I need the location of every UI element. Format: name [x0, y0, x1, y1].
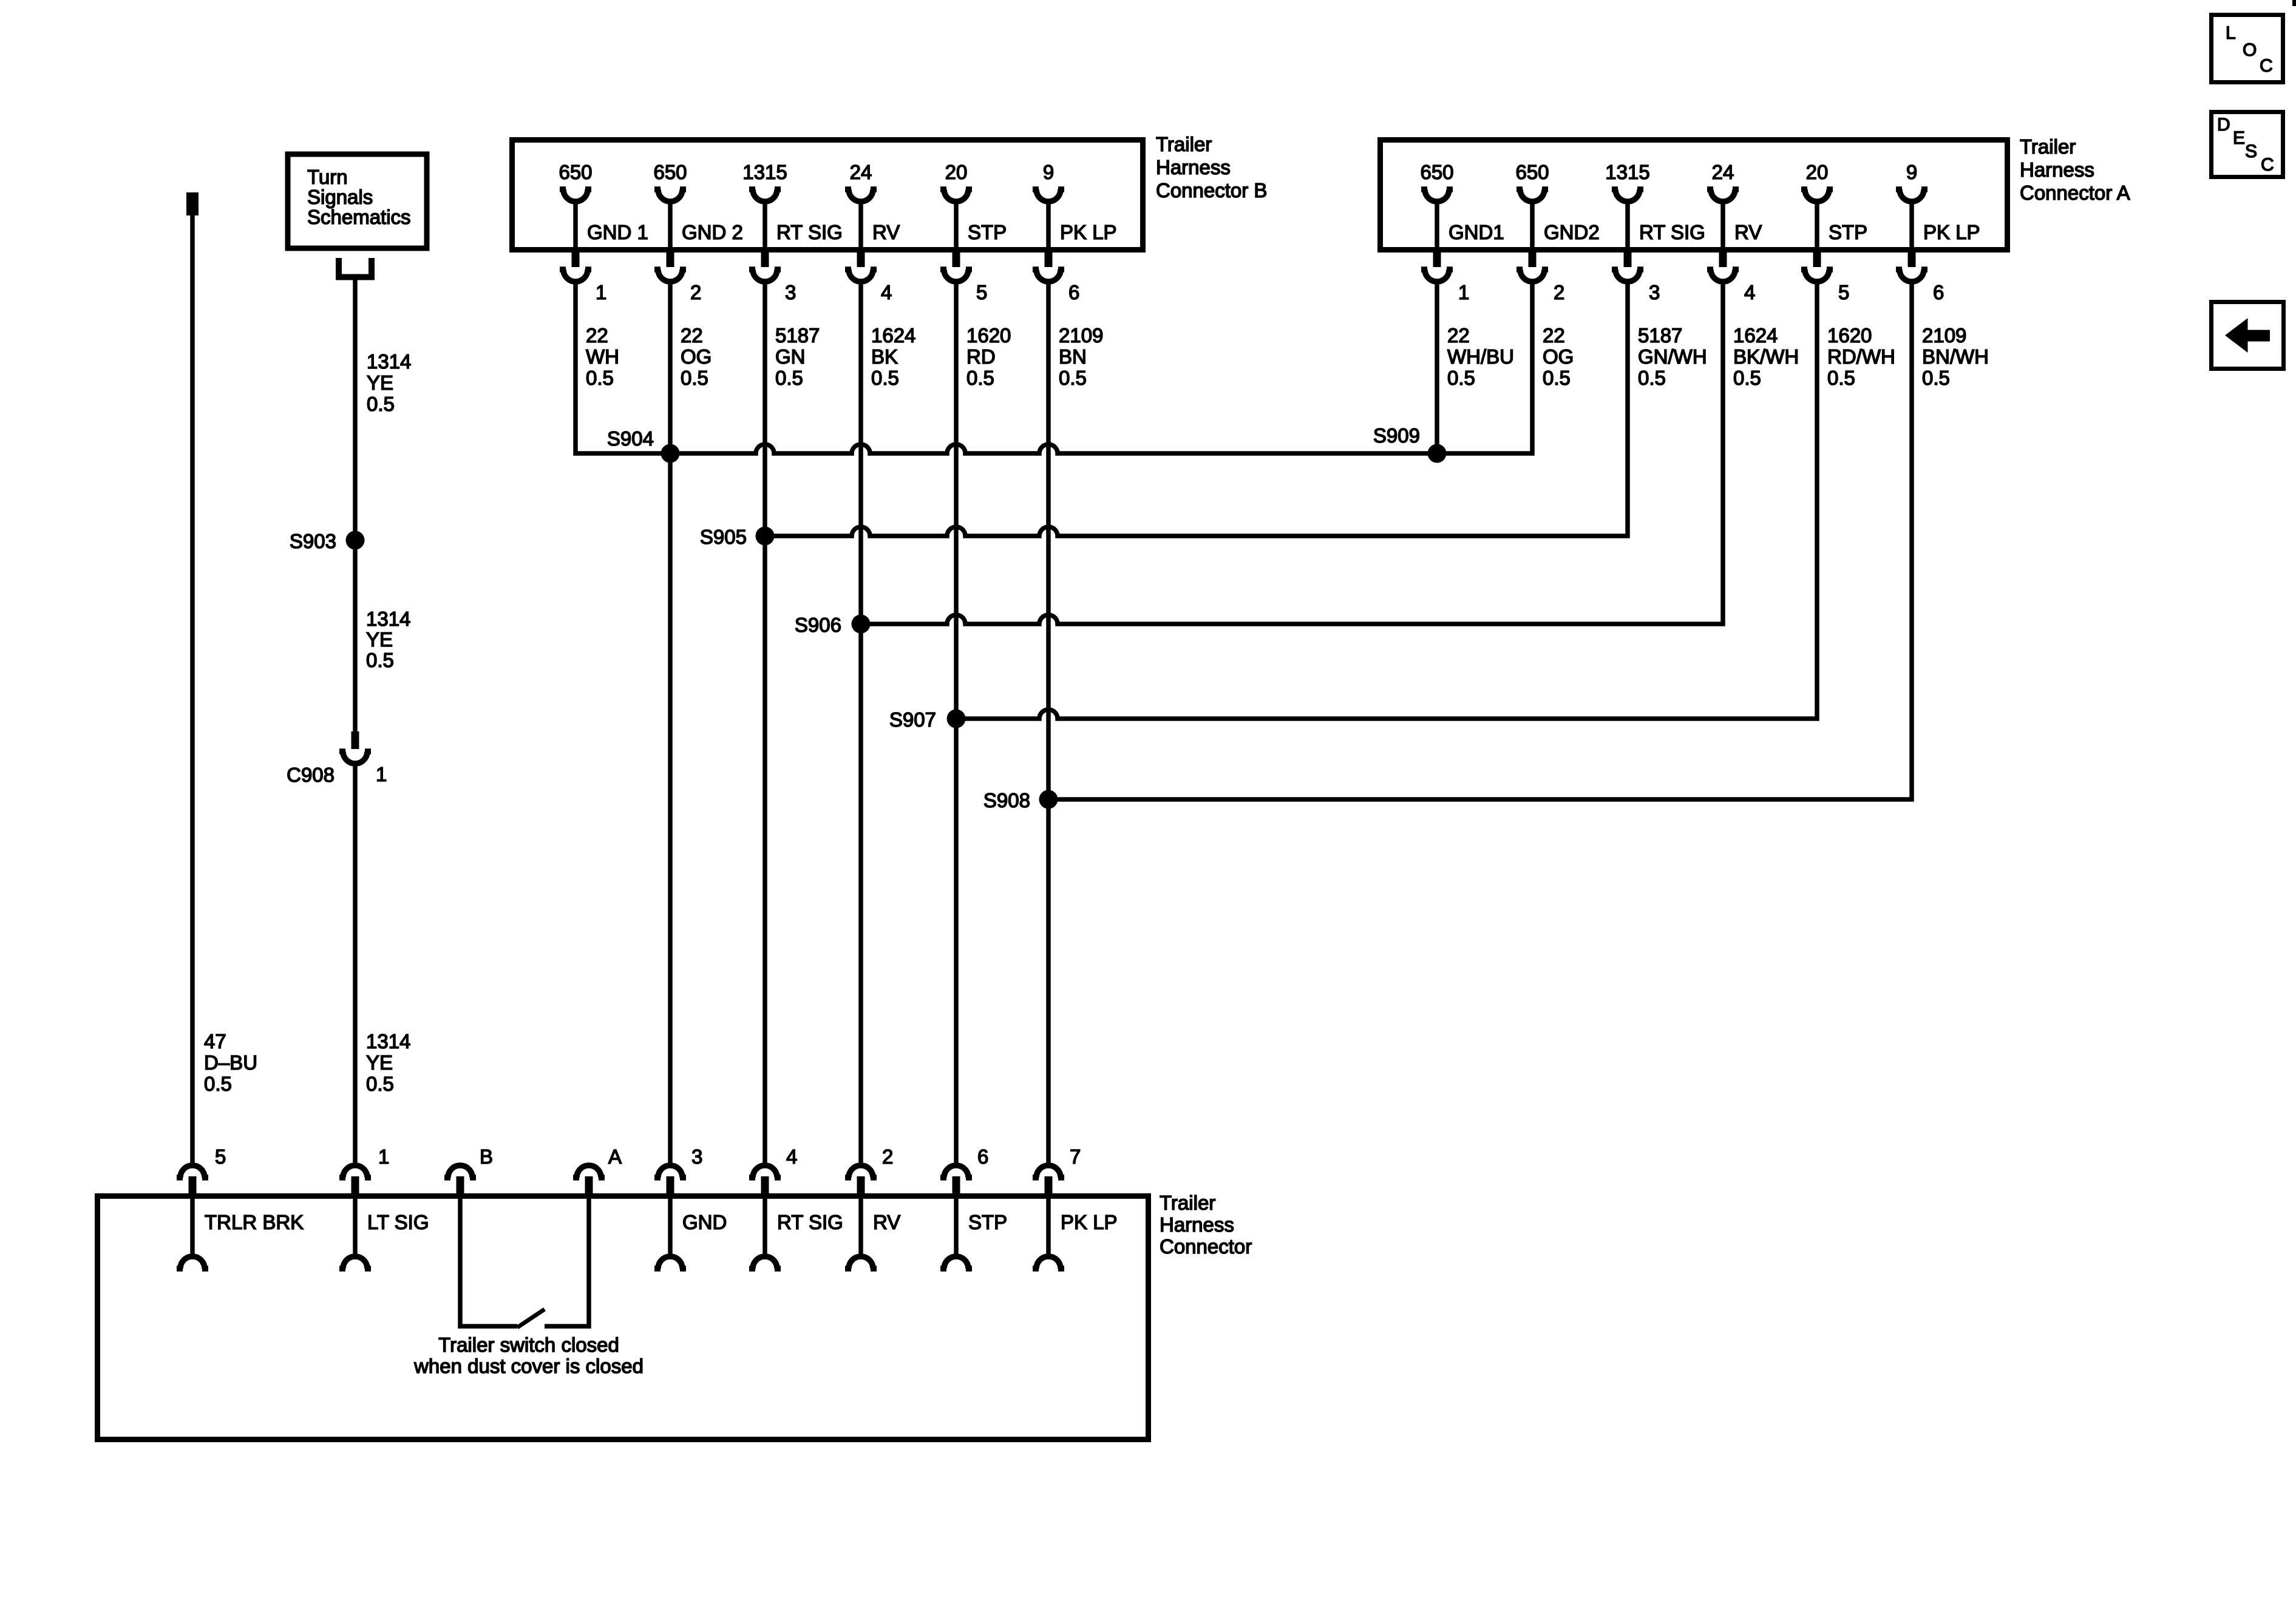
svg-text:3: 3 — [785, 281, 796, 303]
svg-text:S903: S903 — [290, 530, 336, 552]
svg-text:24: 24 — [850, 161, 872, 183]
connector B pin 3 interface — [761, 249, 769, 267]
svg-text:7: 7 — [1070, 1145, 1081, 1168]
svg-text:22: 22 — [1543, 324, 1565, 347]
connector A pin 1 interface — [1433, 249, 1441, 267]
splice S906 — [852, 615, 871, 634]
svg-text:1: 1 — [376, 763, 387, 785]
connector B pin 4 interface — [857, 249, 865, 267]
svg-text:Trailer: Trailer — [1156, 133, 1212, 155]
svg-text:RV: RV — [1734, 221, 1762, 243]
svg-text:STP: STP — [1829, 221, 1867, 243]
svg-text:2109: 2109 — [1922, 324, 1966, 347]
svg-text:5: 5 — [976, 281, 987, 303]
svg-text:0.5: 0.5 — [1447, 367, 1475, 389]
svg-text:0.5: 0.5 — [366, 1073, 394, 1095]
svg-text:0.5: 0.5 — [1543, 367, 1571, 389]
svg-text:YE: YE — [366, 628, 393, 651]
svg-text:E: E — [2233, 128, 2245, 148]
splice S908 — [1039, 790, 1058, 809]
wire 2109 BN (B pin6 to trailer connector PK LP) — [1046, 280, 1051, 1163]
svg-text:S905: S905 — [700, 526, 747, 548]
svg-text:1314: 1314 — [367, 350, 411, 373]
svg-text:GND2: GND2 — [1544, 221, 1600, 243]
LOC nav box — [2212, 15, 2283, 83]
Trailer Harness Connector B box — [512, 140, 1143, 250]
back arrow nav box — [2212, 302, 2284, 369]
svg-text:BN: BN — [1059, 345, 1087, 368]
svg-text:TRLR BRK: TRLR BRK — [205, 1211, 304, 1233]
svg-text:1620: 1620 — [966, 324, 1011, 347]
svg-text:S906: S906 — [795, 614, 841, 636]
svg-text:Connector A: Connector A — [2020, 181, 2130, 204]
svg-text:4: 4 — [786, 1145, 797, 1168]
svg-text:0.5: 0.5 — [1827, 367, 1855, 389]
svg-text:RT SIG: RT SIG — [776, 221, 843, 243]
wire end terminal block (top of TRLR BRK wire) — [186, 192, 199, 215]
svg-text:3: 3 — [691, 1145, 702, 1168]
svg-text:1624: 1624 — [1733, 324, 1778, 347]
connector A pin 2 interface — [1529, 249, 1537, 267]
Trailer Harness Connector A box — [1381, 140, 2008, 250]
wire RV link S906 to A pin4 — [861, 280, 1723, 624]
svg-text:1: 1 — [378, 1145, 389, 1168]
svg-text:650: 650 — [1515, 161, 1549, 183]
svg-text:Harness: Harness — [2020, 158, 2094, 181]
svg-text:S: S — [2245, 141, 2257, 161]
svg-text:RD/WH: RD/WH — [1827, 345, 1895, 368]
svg-text:Trailer switch closed: Trailer switch closed — [438, 1334, 619, 1356]
svg-text:OG: OG — [1543, 345, 1574, 368]
trailer connector pin 4 terminal — [753, 1165, 777, 1178]
splice S907 — [947, 710, 966, 728]
svg-text:22: 22 — [681, 324, 703, 347]
svg-text:2: 2 — [690, 281, 701, 303]
svg-text:RV: RV — [873, 1211, 900, 1233]
svg-text:0.5: 0.5 — [204, 1073, 232, 1095]
trailer connector pin 2 terminal — [849, 1165, 873, 1178]
connector A pin 4 interface — [1719, 249, 1727, 267]
connector C908 pin 1 — [352, 731, 359, 749]
svg-text:24: 24 — [1712, 161, 1734, 183]
svg-text:PK LP: PK LP — [1923, 221, 1980, 243]
splice S904 — [661, 444, 680, 463]
connector A pin 5 interface — [1813, 249, 1821, 267]
svg-text:WH/BU: WH/BU — [1447, 345, 1514, 368]
svg-text:C908: C908 — [287, 764, 335, 786]
wire 1624 BK (B pin4 to trailer connector RV) — [858, 280, 863, 1163]
trailer switch blade — [517, 1309, 545, 1327]
svg-text:6: 6 — [1068, 281, 1079, 303]
splice S903 — [346, 531, 365, 550]
svg-text:O: O — [2243, 40, 2257, 60]
wire 5187 GN (B pin3 to trailer connector RT SIG) — [763, 280, 767, 1163]
svg-text:Turn: Turn — [307, 166, 348, 188]
svg-text:0.5: 0.5 — [1059, 367, 1087, 389]
svg-text:2: 2 — [1554, 281, 1564, 303]
svg-text:0.5: 0.5 — [586, 367, 614, 389]
svg-text:RV: RV — [872, 221, 900, 243]
svg-text:STP: STP — [968, 221, 1007, 243]
connector B pin 5 interface — [953, 249, 960, 267]
svg-text:Harness: Harness — [1160, 1213, 1234, 1236]
svg-text:S907: S907 — [889, 708, 936, 731]
svg-text:PK LP: PK LP — [1060, 221, 1117, 243]
trailer connector pin A terminal — [577, 1165, 601, 1178]
connector B pin 1 interface — [572, 249, 580, 267]
svg-text:6: 6 — [1933, 281, 1944, 303]
svg-text:Connector B: Connector B — [1156, 179, 1267, 202]
connector A pin 6 interface — [1908, 249, 1916, 267]
svg-text:Signals: Signals — [307, 186, 373, 208]
svg-text:5: 5 — [215, 1145, 226, 1168]
connector B pin 6 interface — [1045, 249, 1053, 267]
svg-text:Harness: Harness — [1156, 156, 1231, 178]
svg-text:STP: STP — [968, 1211, 1007, 1233]
wire RT SIG link S905 to A pin3 — [765, 280, 1628, 536]
svg-text:D–BU: D–BU — [204, 1051, 257, 1074]
svg-text:5187: 5187 — [775, 324, 820, 347]
svg-text:0.5: 0.5 — [871, 367, 899, 389]
svg-text:1: 1 — [596, 281, 606, 303]
svg-text:0.5: 0.5 — [966, 367, 994, 389]
svg-text:S904: S904 — [607, 427, 654, 450]
trailer switch wire from pin A — [545, 1198, 589, 1326]
svg-text:0.5: 0.5 — [1922, 367, 1950, 389]
svg-text:3: 3 — [1649, 281, 1660, 303]
svg-text:BN/WH: BN/WH — [1922, 345, 1989, 368]
svg-text:S908: S908 — [983, 789, 1030, 812]
trailer connector pin 3 terminal — [658, 1165, 682, 1178]
svg-text:20: 20 — [1806, 161, 1829, 183]
svg-text:YE: YE — [366, 1051, 393, 1074]
svg-text:BK/WH: BK/WH — [1733, 345, 1799, 368]
svg-text:LT SIG: LT SIG — [367, 1211, 429, 1233]
Trailer Harness Connector box (bottom) — [98, 1196, 1149, 1440]
svg-text:22: 22 — [586, 324, 608, 347]
svg-text:1315: 1315 — [1605, 161, 1649, 183]
connector A pin 3 interface — [1624, 249, 1632, 267]
svg-text:0.5: 0.5 — [1638, 367, 1666, 389]
svg-text:GN/WH: GN/WH — [1638, 345, 1707, 368]
svg-text:GN: GN — [775, 345, 806, 368]
wire 22 WH/BU (A pin1 down to splice S909) — [1435, 280, 1439, 453]
svg-text:9: 9 — [1043, 161, 1054, 183]
svg-text:A: A — [608, 1145, 622, 1168]
svg-text:WH: WH — [586, 345, 619, 368]
splice S909 — [1428, 444, 1447, 463]
svg-text:4: 4 — [881, 281, 892, 303]
svg-text:GND1: GND1 — [1449, 221, 1504, 243]
svg-text:650: 650 — [1420, 161, 1453, 183]
svg-text:20: 20 — [945, 161, 968, 183]
trailer connector pin B terminal — [448, 1165, 472, 1178]
svg-text:1: 1 — [1458, 281, 1469, 303]
trailer connector pin 1 terminal — [343, 1165, 367, 1178]
svg-text:YE: YE — [367, 371, 393, 394]
schematic continuation bracket under Turn Signals box — [339, 258, 372, 277]
svg-text:6: 6 — [977, 1145, 988, 1168]
svg-text:RT SIG: RT SIG — [777, 1211, 843, 1233]
svg-text:Connector: Connector — [1160, 1235, 1252, 1258]
wire STP link S907 to A pin5 — [956, 280, 1817, 719]
svg-text:650: 650 — [559, 161, 592, 183]
wire 22 OG (B pin2 to trailer connector GND) — [668, 280, 673, 1163]
wire 1314 YE middle segment (S903 to C908) — [353, 540, 358, 731]
svg-text:650: 650 — [653, 161, 687, 183]
connector B pin 2 interface — [667, 249, 674, 267]
svg-text:0.5: 0.5 — [367, 393, 395, 415]
svg-text:B: B — [480, 1145, 493, 1168]
wire ground bus S904 to S909 (B pin1, over wires, to A pin2) — [576, 280, 1532, 453]
svg-text:0.5: 0.5 — [1733, 367, 1761, 389]
svg-text:1315: 1315 — [742, 161, 787, 183]
svg-text:PK LP: PK LP — [1061, 1211, 1118, 1233]
svg-text:0.5: 0.5 — [775, 367, 803, 389]
svg-text:2109: 2109 — [1059, 324, 1103, 347]
wire PK LP link S908 to A pin6 — [1048, 280, 1912, 799]
svg-text:0.5: 0.5 — [681, 367, 708, 389]
svg-text:Trailer: Trailer — [2020, 135, 2076, 158]
trailer connector pin 6 terminal — [944, 1165, 968, 1178]
DESC nav box — [2212, 112, 2283, 177]
wire 1314 YE lower segment (C908 to trailer connector) — [353, 762, 358, 1163]
svg-text:2: 2 — [882, 1145, 893, 1168]
svg-text:S909: S909 — [1373, 424, 1420, 447]
svg-text:RD: RD — [966, 345, 996, 368]
svg-text:1624: 1624 — [871, 324, 915, 347]
svg-text:1314: 1314 — [366, 608, 410, 630]
svg-text:4: 4 — [1744, 281, 1755, 303]
svg-text:BK: BK — [871, 345, 898, 368]
trailer connector pin 7 terminal — [1036, 1165, 1061, 1178]
wire 1314 YE upper segment (from Turn Signals to S903) — [353, 280, 358, 540]
svg-text:when dust cover is closed: when dust cover is closed — [413, 1355, 644, 1377]
svg-text:1620: 1620 — [1827, 324, 1872, 347]
svg-text:Trailer: Trailer — [1160, 1192, 1215, 1214]
svg-text:GND 1: GND 1 — [587, 221, 648, 243]
svg-text:RT SIG: RT SIG — [1639, 221, 1705, 243]
svg-text:Schematics: Schematics — [307, 206, 411, 228]
svg-text:5: 5 — [1838, 281, 1849, 303]
splice S905 — [756, 527, 775, 546]
svg-text:GND: GND — [682, 1211, 727, 1233]
svg-text:22: 22 — [1447, 324, 1470, 347]
svg-text:C: C — [2260, 56, 2273, 76]
svg-text:0.5: 0.5 — [366, 649, 394, 671]
wire 1620 RD (B pin5 to trailer connector STP) — [954, 280, 959, 1163]
svg-text:L: L — [2226, 23, 2236, 43]
svg-text:OG: OG — [681, 345, 712, 368]
svg-text:1314: 1314 — [366, 1030, 410, 1053]
svg-text:GND 2: GND 2 — [682, 221, 743, 243]
trailer connector pin 5 terminal — [180, 1165, 205, 1178]
page corner tick — [2292, 0, 2296, 6]
svg-text:9: 9 — [1906, 161, 1917, 183]
svg-text:47: 47 — [204, 1030, 226, 1053]
block Turn Signals Schematics — [288, 154, 427, 248]
wire 47 D-BU vertical (TRLR BRK feed) — [190, 215, 195, 1163]
svg-text:C: C — [2261, 155, 2274, 175]
trailer switch wire from pin B — [460, 1198, 517, 1326]
svg-text:5187: 5187 — [1638, 324, 1682, 347]
svg-text:D: D — [2217, 115, 2230, 135]
